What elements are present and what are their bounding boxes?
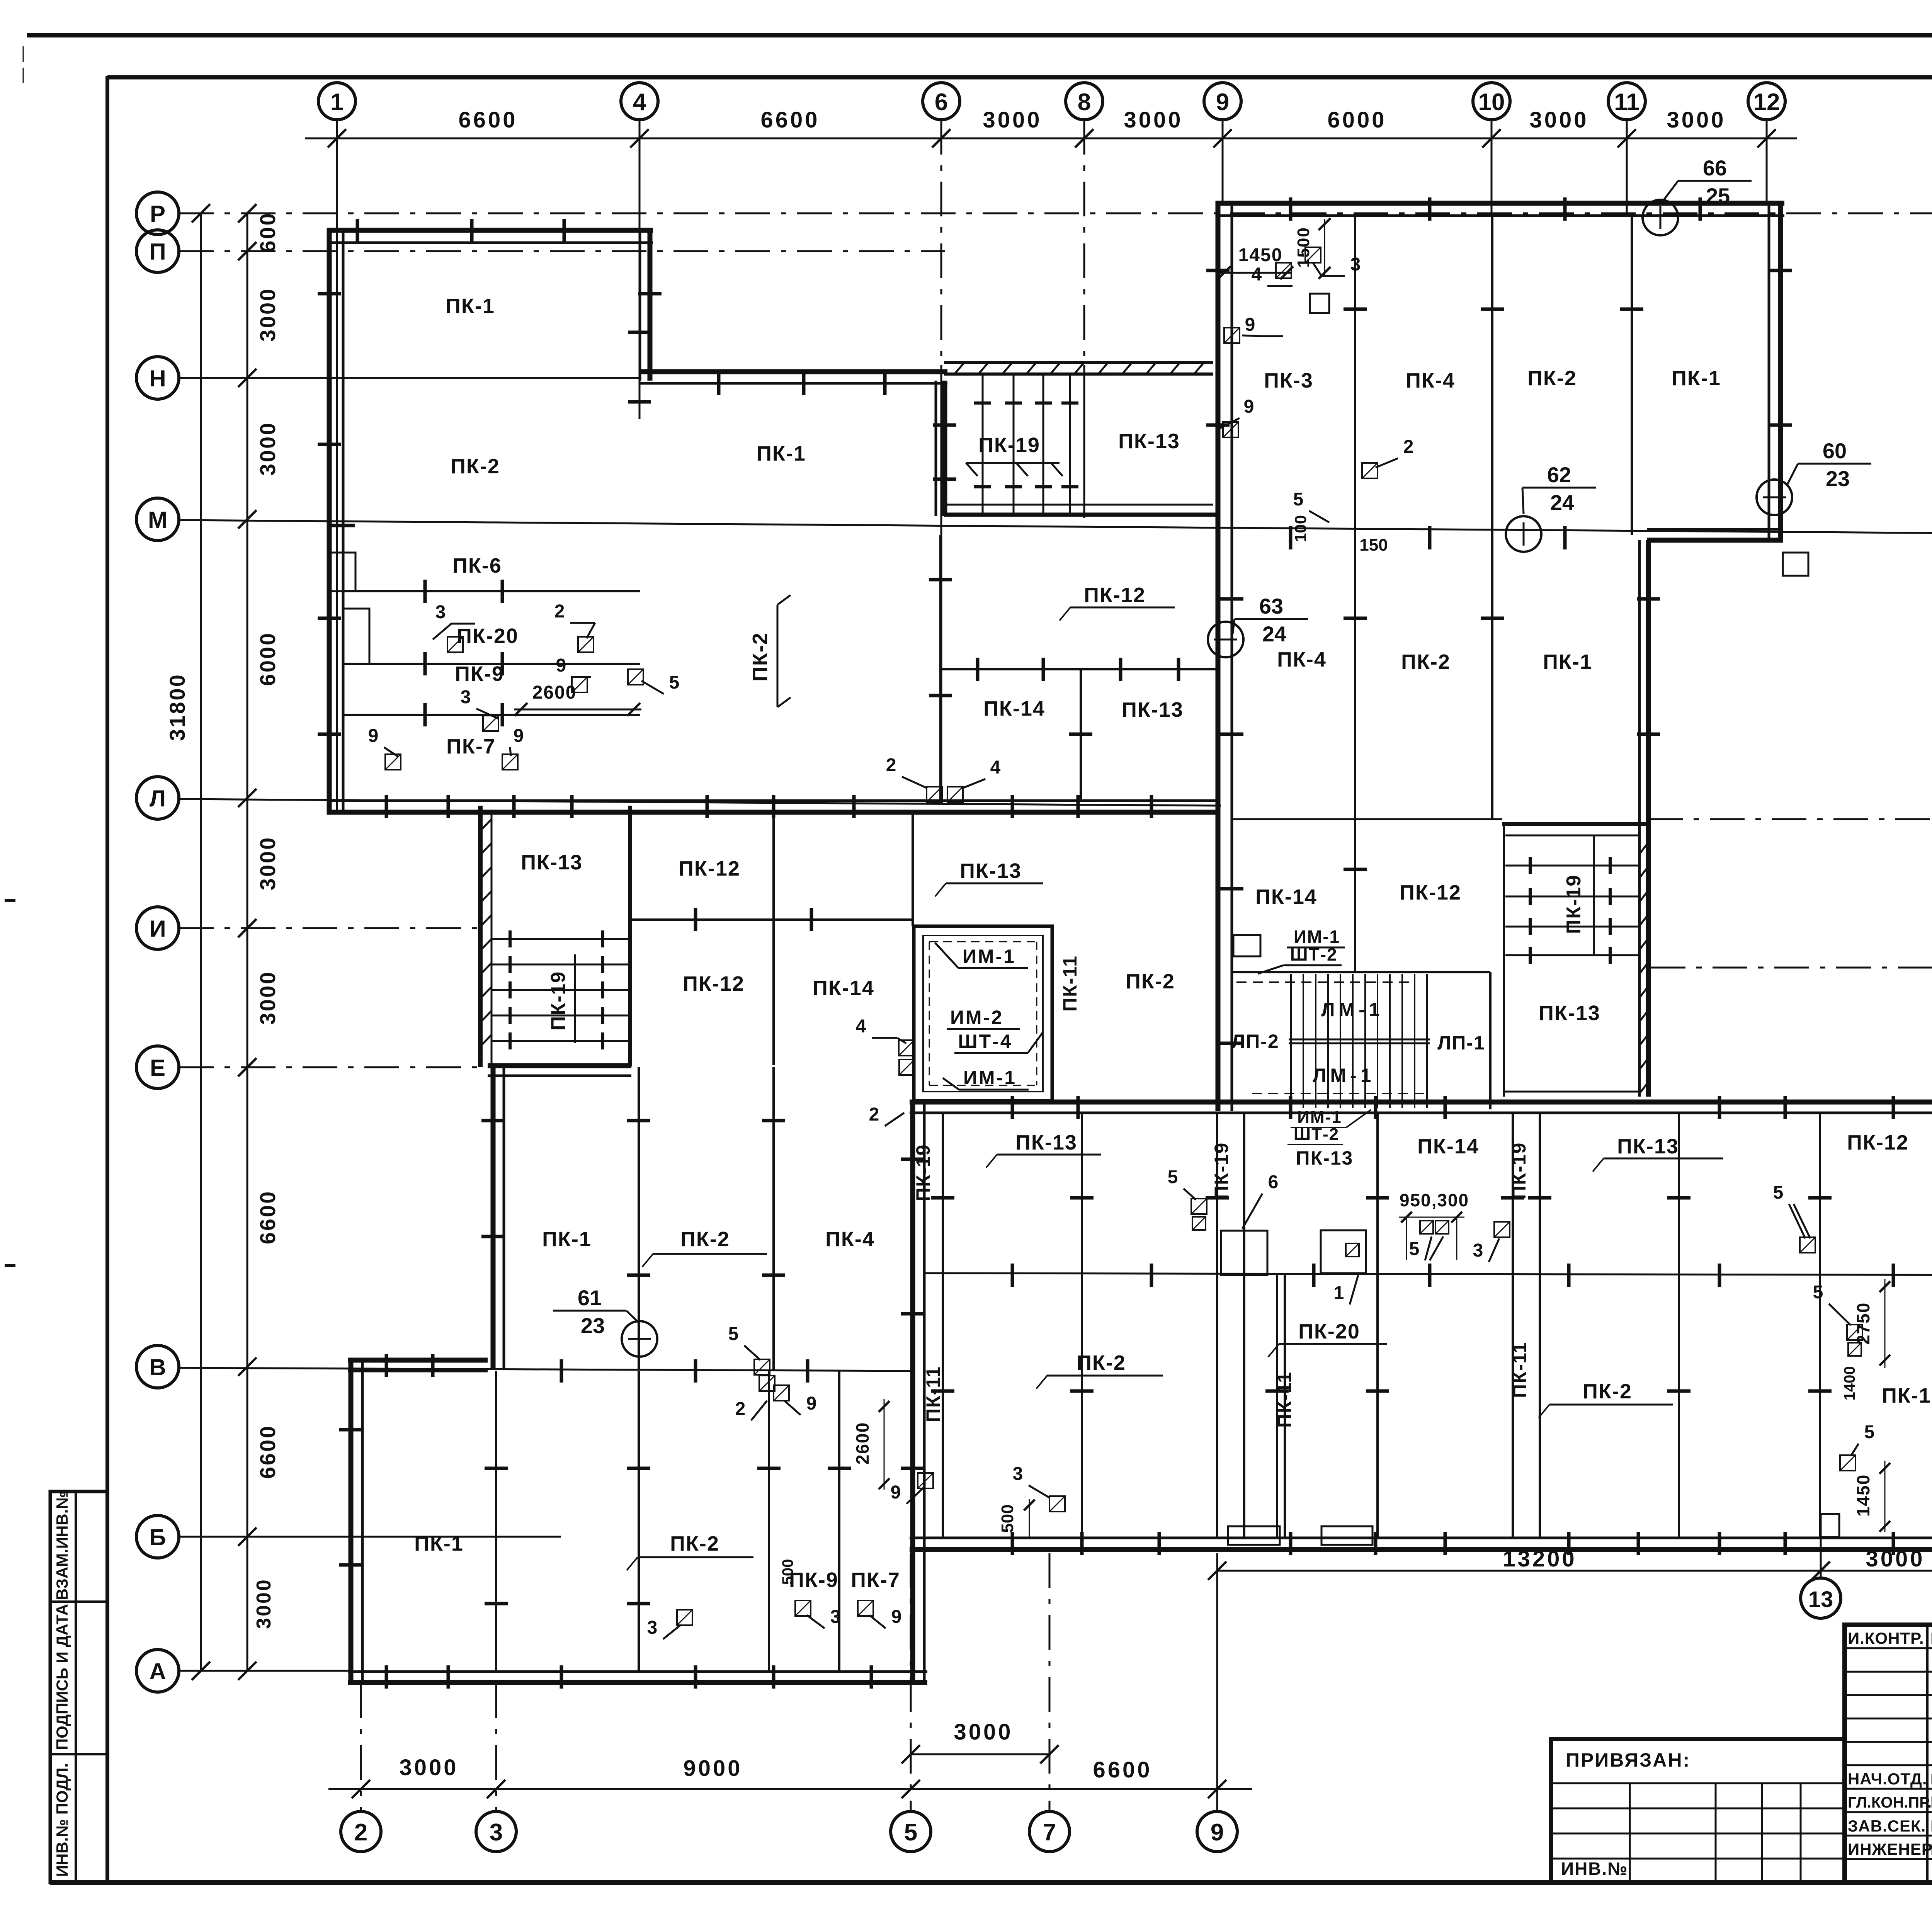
- title block left box grid: [1551, 1782, 1845, 1784]
- svg-text:ИНЖЕНЕР: ИНЖЕНЕР: [1848, 1840, 1932, 1858]
- left stamp strip divider vertical: [75, 1492, 77, 1883]
- axis circle Н left: [136, 357, 179, 399]
- wall top-right block right axis12: [1778, 201, 1783, 541]
- svg-text:3000: 3000: [255, 287, 280, 342]
- svg-text:7: 7: [1043, 1819, 1056, 1846]
- svg-text:3: 3: [1473, 1240, 1483, 1261]
- opening rectangles row Г: [1221, 1231, 1267, 1275]
- svg-text:ПК-2: ПК-2: [1077, 1351, 1126, 1374]
- left overall dimension line: [200, 213, 202, 1671]
- axis circle 9 top: [1204, 83, 1241, 120]
- bottom dimension line 13200/3000: [1217, 1570, 1932, 1572]
- svg-text:А: А: [149, 1658, 166, 1684]
- title block outer box: [1845, 1625, 1932, 1883]
- joint shaft strip vertical x2362 upper: [912, 815, 914, 926]
- wall lower building bottom row Б: [910, 1547, 1932, 1552]
- svg-text:Б: Б: [149, 1524, 166, 1550]
- svg-text:66: 66: [1703, 156, 1727, 180]
- svg-text:4: 4: [856, 1016, 866, 1037]
- svg-text:23: 23: [1826, 466, 1850, 491]
- wall lower building left / bottom-left block right: [910, 1102, 915, 1683]
- svg-text:ПК-20: ПК-20: [1298, 1320, 1360, 1343]
- stair1 treads: [982, 374, 984, 515]
- svg-text:6000: 6000: [1327, 107, 1386, 133]
- axis circle Б left: [136, 1515, 179, 1558]
- shaft ИМ box inner: [923, 935, 1043, 1092]
- svg-text:1450: 1450: [1853, 1474, 1873, 1517]
- svg-text:3000: 3000: [1124, 107, 1183, 133]
- left dimension line segments: [247, 213, 248, 1671]
- stair2 treads: [492, 938, 630, 940]
- svg-text:24: 24: [1550, 490, 1574, 515]
- svg-text:ПК-19: ПК-19: [978, 434, 1040, 457]
- stair3 treads: [1505, 865, 1639, 867]
- wall top-left block right upper: [648, 228, 653, 381]
- svg-text:ПК-12: ПК-12: [1847, 1131, 1909, 1154]
- svg-text:6: 6: [935, 89, 948, 116]
- svg-text:2600: 2600: [532, 682, 577, 703]
- svg-text:1400: 1400: [1841, 1366, 1858, 1401]
- wall bottom-left block left: [349, 1358, 354, 1685]
- svg-text:5: 5: [904, 1819, 917, 1846]
- wall top-left block top: [327, 228, 653, 233]
- axis circle 11 top: [1608, 83, 1645, 120]
- wall stair2 right: [628, 806, 632, 1066]
- svg-text:И.КОНТР.: И.КОНТР.: [1848, 1629, 1924, 1647]
- joint TR block vertical x4223: [1631, 216, 1633, 535]
- opening rectangles lower building bottom: [1228, 1526, 1280, 1545]
- svg-text:5: 5: [1773, 1182, 1784, 1203]
- svg-text:ЛМ-1: ЛМ-1: [1321, 999, 1383, 1020]
- svg-text:ПК-4: ПК-4: [825, 1228, 875, 1251]
- left stamp strip cell dividers: [50, 1600, 107, 1603]
- svg-text:3000: 3000: [1529, 107, 1588, 133]
- axis line 4 vertical: [639, 120, 641, 419]
- svg-text:3000: 3000: [983, 107, 1042, 133]
- svg-text:Р: Р: [150, 201, 165, 227]
- svg-text:Е: Е: [150, 1055, 165, 1081]
- joint Л-Е area horizontal y2380: [631, 918, 913, 921]
- axis circle 1 top: [318, 83, 355, 120]
- joint Л-Е area vertical x2002 upper: [772, 815, 775, 1065]
- svg-text:9: 9: [806, 1393, 817, 1414]
- svg-text:1: 1: [1334, 1283, 1344, 1303]
- svg-text:3: 3: [647, 1617, 658, 1638]
- axis line М horizontal: [179, 520, 1932, 534]
- svg-text:ПК-19: ПК-19: [912, 1144, 934, 1202]
- sheet frame top inner line: [107, 75, 1932, 80]
- svg-text:ПК-4: ПК-4: [1406, 369, 1455, 392]
- axis line Г horizontal: [925, 1273, 1932, 1275]
- svg-text:ПК-2: ПК-2: [680, 1228, 730, 1251]
- svg-text:ГЛ.КОН.ПР.: ГЛ.КОН.ПР.: [1848, 1794, 1932, 1811]
- svg-text:3: 3: [1013, 1464, 1023, 1484]
- axis line 8 vertical: [1083, 120, 1085, 365]
- axis line В horizontal: [179, 1368, 913, 1371]
- svg-text:3000: 3000: [253, 1578, 275, 1629]
- svg-text:9: 9: [1211, 1819, 1224, 1846]
- svg-text:2: 2: [354, 1819, 367, 1846]
- wall mid-block right: [942, 381, 947, 516]
- svg-text:10: 10: [1478, 89, 1505, 116]
- tick marks: [356, 219, 359, 242]
- svg-text:ПК-13: ПК-13: [1296, 1147, 1354, 1169]
- wall row Л: [327, 810, 1220, 815]
- svg-text:2: 2: [735, 1399, 746, 1419]
- svg-text:5: 5: [1813, 1282, 1823, 1303]
- svg-text:ВЗАМ.ИНВ.№: ВЗАМ.ИНВ.№: [53, 1491, 71, 1600]
- svg-text:ИВАНОВСКИЙ: ИВАНОВСКИЙ: [1930, 1629, 1932, 1647]
- svg-text:БОГОРОДСКИЙ: БОГОРОДСКИЙ: [1930, 1770, 1932, 1788]
- svg-text:ИМ-1: ИМ-1: [1297, 1108, 1342, 1127]
- axis line 9 vertical bottom: [1216, 1553, 1218, 1811]
- svg-text:3: 3: [435, 602, 446, 622]
- axis line 2 vertical bottom: [360, 1683, 362, 1811]
- opening rectangle left wall notch: [329, 553, 355, 591]
- wall top-right block top: [1216, 201, 1784, 206]
- joint bottom-left block vertical x1990: [768, 1371, 770, 1672]
- svg-text:3: 3: [1350, 254, 1361, 275]
- title block personnel rows: [1845, 1647, 1932, 1649]
- axis line 3 vertical bottom: [495, 1683, 497, 1811]
- svg-text:31800: 31800: [165, 673, 189, 741]
- svg-text:4: 4: [1252, 264, 1262, 285]
- svg-text:2: 2: [869, 1104, 879, 1125]
- svg-text:ПК-12: ПК-12: [683, 972, 745, 995]
- svg-text:25: 25: [1706, 184, 1730, 208]
- axis circle 8 top: [1066, 83, 1103, 120]
- svg-text:ЛМ-1: ЛМ-1: [1313, 1065, 1375, 1086]
- svg-text:НАЧ.ОТД.: НАЧ.ОТД.: [1848, 1770, 1927, 1788]
- wall top-left block left: [327, 228, 332, 815]
- svg-text:500: 500: [998, 1504, 1017, 1532]
- axis line 1 vertical: [336, 120, 338, 811]
- svg-text:Н: Н: [149, 366, 166, 391]
- shaft ИМ box outer: [914, 926, 1052, 1101]
- svg-text:3000: 3000: [255, 971, 280, 1025]
- axis line 5 vertical bottom: [910, 1553, 912, 1811]
- axis circle 9 bottom: [1197, 1811, 1237, 1852]
- svg-text:9000: 9000: [683, 1756, 742, 1781]
- axis line Б-left horizontal: [179, 1536, 561, 1538]
- axis circle И left: [136, 907, 179, 949]
- svg-text:5: 5: [1293, 489, 1304, 510]
- svg-text:3000: 3000: [954, 1719, 1013, 1745]
- svg-text:ПК-13: ПК-13: [1122, 698, 1184, 721]
- svg-text:ПК-1: ПК-1: [414, 1532, 464, 1555]
- axis line 10 vertical: [1491, 120, 1493, 216]
- svg-text:ПК-13: ПК-13: [1539, 1002, 1600, 1025]
- svg-text:ПК-19: ПК-19: [1563, 874, 1585, 934]
- svg-text:ИМ-2: ИМ-2: [950, 1007, 1003, 1028]
- svg-text:ПК-14: ПК-14: [983, 697, 1045, 720]
- svg-text:5: 5: [728, 1324, 739, 1344]
- axis circle Р left: [136, 192, 179, 235]
- svg-text:2750: 2750: [1853, 1302, 1873, 1345]
- svg-text:3000: 3000: [255, 422, 280, 476]
- svg-text:ГЛУЩЕНКО: ГЛУЩЕНКО: [1930, 1840, 1932, 1858]
- svg-text:ПК-1: ПК-1: [446, 294, 495, 318]
- joint middle band vertical x1653: [638, 1067, 640, 1370]
- svg-text:ЛП-2: ЛП-2: [1231, 1031, 1279, 1052]
- joint mid band horizontal y1732: [940, 668, 1218, 670]
- svg-text:ПК-2: ПК-2: [670, 1532, 719, 1555]
- svg-text:ПК-6: ПК-6: [452, 554, 502, 577]
- svg-text:ИМ-1: ИМ-1: [963, 946, 1016, 967]
- svg-text:П: П: [149, 239, 166, 265]
- svg-text:2: 2: [886, 755, 896, 776]
- svg-text:ПК-11: ПК-11: [1274, 1371, 1295, 1428]
- axis circle 2 bottom: [341, 1811, 381, 1852]
- svg-text:ПК-9: ПК-9: [455, 662, 504, 685]
- svg-text:150: 150: [1359, 536, 1388, 554]
- joint TR lower vertical x3507: [1354, 535, 1356, 819]
- svg-text:23: 23: [581, 1313, 605, 1338]
- svg-text:ПК-2: ПК-2: [451, 455, 500, 478]
- svg-text:3000: 3000: [399, 1755, 458, 1780]
- joint mid band vertical x2434: [939, 535, 942, 801]
- top dimension line: [305, 138, 1797, 139]
- axis circle 3 bottom: [476, 1811, 516, 1852]
- svg-text:ПК-12: ПК-12: [1400, 881, 1461, 904]
- wall bottom-left block bottom: [348, 1680, 927, 1685]
- axis circle 5 bottom: [891, 1811, 931, 1852]
- left stamp strip box: [50, 1492, 107, 1883]
- joint mid band vertical x2797: [1080, 669, 1082, 801]
- svg-text:ПК-1: ПК-1: [1543, 650, 1592, 673]
- svg-text:6600: 6600: [1093, 1757, 1152, 1782]
- joint TR lower vertical x3862: [1491, 535, 1493, 819]
- svg-text:11: 11: [1614, 89, 1639, 116]
- joint middle band vertical x2002: [772, 1067, 775, 1370]
- svg-text:3000: 3000: [255, 836, 280, 891]
- axis line Л horizontal: [179, 799, 1221, 806]
- wall row Н segment: [640, 369, 947, 374]
- bottom dimension line: [328, 1788, 1252, 1790]
- svg-text:2: 2: [554, 601, 565, 622]
- axis circle П left: [136, 230, 179, 272]
- joint bottom-left block vertical x2172: [838, 1371, 840, 1672]
- svg-text:ПК-1: ПК-1: [1672, 367, 1721, 390]
- svg-text:950,300: 950,300: [1400, 1190, 1469, 1210]
- svg-text:3: 3: [830, 1607, 841, 1627]
- axis circle М left: [136, 498, 179, 541]
- wall stair3 left: [1503, 824, 1505, 1097]
- svg-text:ПК-19: ПК-19: [1211, 1142, 1232, 1200]
- svg-text:ПК-11: ПК-11: [1509, 1342, 1531, 1398]
- axis circle 6 top: [923, 83, 960, 120]
- svg-text:ПК-7: ПК-7: [446, 735, 496, 758]
- svg-text:ЛП-1: ЛП-1: [1437, 1032, 1485, 1054]
- joint ПК-6/ПК-20 top-left block: [343, 590, 640, 592]
- axis line 9 vertical top: [1222, 120, 1224, 205]
- axis circle 12 top: [1748, 83, 1785, 120]
- svg-text:ПОДПИСЬ И ДАТА: ПОДПИСЬ И ДАТА: [53, 1604, 71, 1750]
- axis line 7 vertical bottom: [1049, 1553, 1051, 1811]
- axis line 13 vertical bottom: [1820, 1538, 1822, 1578]
- stair main landing lines: [1289, 1039, 1430, 1041]
- svg-text:5: 5: [669, 672, 680, 693]
- wall middle band left: [491, 1065, 496, 1370]
- svg-text:60: 60: [1823, 439, 1847, 463]
- svg-text:ШТ-2: ШТ-2: [1290, 944, 1337, 964]
- svg-text:ПК-13: ПК-13: [1015, 1131, 1077, 1154]
- svg-text:ПК-2: ПК-2: [1401, 650, 1451, 673]
- axis circle 7 bottom: [1029, 1811, 1070, 1852]
- svg-text:61: 61: [578, 1286, 602, 1310]
- joints lower building verticals: [942, 1113, 944, 1538]
- svg-text:62: 62: [1547, 463, 1571, 487]
- svg-text:6600: 6600: [255, 1425, 280, 1479]
- svg-text:ПК-13: ПК-13: [1118, 430, 1180, 453]
- svg-text:ПК-1: ПК-1: [1882, 1384, 1931, 1407]
- svg-text:6: 6: [1268, 1172, 1279, 1192]
- svg-text:6600: 6600: [458, 107, 517, 133]
- axis line П horizontal: [179, 250, 945, 252]
- svg-text:ПК-4: ПК-4: [1277, 648, 1327, 671]
- stair main right border: [1489, 972, 1492, 1109]
- svg-text:5: 5: [1864, 1422, 1875, 1442]
- svg-text:12: 12: [1753, 89, 1780, 116]
- svg-text:ИМ-1: ИМ-1: [1294, 927, 1340, 947]
- svg-text:ПК-2: ПК-2: [1583, 1380, 1632, 1403]
- axis circle Л left: [136, 777, 179, 819]
- svg-text:24: 24: [1262, 622, 1286, 646]
- svg-text:ПК-12: ПК-12: [679, 857, 740, 880]
- axis line Н horizontal: [179, 377, 641, 379]
- svg-text:9: 9: [514, 726, 524, 746]
- wall stair1 bottom: [944, 513, 1218, 517]
- small rectangle top-right wall: [1783, 553, 1808, 576]
- svg-text:ПК-9: ПК-9: [789, 1568, 838, 1592]
- svg-text:И: И: [149, 916, 166, 942]
- axis line 11 vertical: [1626, 120, 1628, 216]
- axis line Р horizontal: [179, 213, 1932, 214]
- joint lower building ПК-11 strip x3305: [1276, 1273, 1278, 1538]
- svg-text:ПК-14: ПК-14: [1255, 885, 1317, 908]
- svg-text:ПК-20: ПК-20: [457, 624, 519, 648]
- svg-text:ПРИВЯЗАН:: ПРИВЯЗАН:: [1566, 1749, 1690, 1771]
- svg-text:ПК-14: ПК-14: [813, 976, 874, 1000]
- stair3 block bottom line: [1504, 1091, 1639, 1093]
- svg-text:ШТ-2: ШТ-2: [1294, 1125, 1339, 1144]
- joint TR block vertical x3507: [1354, 216, 1356, 535]
- svg-text:6600: 6600: [255, 1190, 280, 1245]
- axis line Ж horizontal: [1651, 967, 1932, 969]
- axis line 12 vertical: [1766, 120, 1768, 205]
- sheet frame top outer line: [27, 33, 1932, 37]
- axis circle Е left: [136, 1046, 179, 1088]
- svg-text:600: 600: [255, 212, 280, 252]
- svg-text:6000: 6000: [255, 632, 280, 686]
- wall lower building top row Д: [910, 1100, 1932, 1105]
- wall stair2 left hatched: [478, 806, 483, 1067]
- axis circle А left: [136, 1650, 179, 1692]
- svg-text:6600: 6600: [760, 107, 820, 133]
- wall stair1 top hatched: [944, 361, 1213, 364]
- joint bottom-left block vertical x1653: [638, 1371, 640, 1672]
- stair main top border: [1232, 971, 1490, 973]
- wall row К segment: [1232, 818, 1502, 820]
- svg-text:3: 3: [461, 687, 471, 707]
- svg-text:2: 2: [1403, 437, 1414, 457]
- svg-text:ПК-19: ПК-19: [547, 971, 570, 1031]
- sheet frame left line: [105, 76, 109, 1885]
- svg-text:ЗАВ.СЕК.: ЗАВ.СЕК.: [1848, 1817, 1926, 1835]
- svg-text:2600: 2600: [852, 1422, 872, 1464]
- axis circle 10 top: [1473, 83, 1510, 120]
- svg-text:ПК-1: ПК-1: [757, 442, 806, 465]
- svg-text:63: 63: [1259, 594, 1283, 618]
- svg-text:ПК-1: ПК-1: [542, 1228, 592, 1251]
- wall bottom-left block top step: [348, 1358, 488, 1363]
- svg-text:ПК-13: ПК-13: [1617, 1135, 1679, 1158]
- title block personnel column lines: [1926, 1625, 1929, 1883]
- axis circle 13: [1801, 1578, 1841, 1618]
- svg-text:3000: 3000: [1667, 107, 1726, 133]
- wall top-right block left long: [1216, 201, 1221, 1111]
- svg-text:9: 9: [556, 655, 566, 676]
- svg-text:ПК-11: ПК-11: [922, 1366, 944, 1422]
- joint bottom-left block vertical x1284: [495, 1371, 497, 1672]
- joint TR block vertical x3862: [1491, 216, 1493, 535]
- stair main treads: [1290, 974, 1292, 1108]
- svg-text:ИВАНОВСКИЙ: ИВАНОВСКИЙ: [1930, 1793, 1932, 1811]
- svg-text:8: 8: [1078, 89, 1091, 116]
- svg-text:ИНВ.№ ПОДЛ.: ИНВ.№ ПОДЛ.: [53, 1763, 71, 1877]
- door notch left wall: [343, 609, 369, 664]
- svg-text:9: 9: [1244, 396, 1254, 417]
- svg-text:Л: Л: [150, 786, 166, 811]
- svg-text:9: 9: [1245, 315, 1255, 335]
- svg-text:4: 4: [990, 757, 1001, 778]
- svg-text:В: В: [149, 1354, 166, 1380]
- svg-text:ПК-13: ПК-13: [960, 859, 1022, 883]
- svg-text:ШТ-4: ШТ-4: [958, 1031, 1012, 1052]
- axis line 6 vertical: [940, 120, 942, 365]
- svg-text:ПК-2: ПК-2: [1126, 970, 1175, 993]
- svg-text:9: 9: [368, 726, 379, 746]
- svg-text:ПК-2: ПК-2: [1527, 367, 1577, 390]
- wall row М right segment: [1647, 538, 1783, 543]
- svg-text:1: 1: [330, 89, 344, 116]
- stair3 flight line: [1593, 835, 1595, 955]
- title block left box ПРИВЯЗАН: [1551, 1739, 1845, 1883]
- svg-text:5: 5: [1168, 1167, 1178, 1187]
- svg-text:4: 4: [633, 89, 646, 116]
- svg-text:ПК-7: ПК-7: [851, 1568, 900, 1592]
- svg-text:9: 9: [891, 1482, 901, 1503]
- axis line К horizontal: [1648, 818, 1932, 820]
- svg-text:ПК-11: ПК-11: [1059, 955, 1081, 1012]
- axis line Е horizontal: [179, 1066, 491, 1068]
- joint ПК-9/ПК-7 top-left block: [343, 714, 640, 716]
- axis circle 4 top: [621, 83, 658, 120]
- left margin dash marks: [23, 46, 24, 62]
- svg-text:ПК-13: ПК-13: [521, 851, 583, 874]
- svg-text:ПК-14: ПК-14: [1417, 1135, 1479, 1158]
- svg-text:ПК-2: ПК-2: [748, 632, 772, 682]
- underlines for panel labels: [1070, 607, 1175, 609]
- svg-text:ИНВ.№: ИНВ.№: [1561, 1859, 1628, 1879]
- bottom dimension line 3000 axes 5-7: [911, 1753, 1049, 1755]
- svg-text:БЕЛОВА: БЕЛОВА: [1930, 1817, 1932, 1835]
- joint ПК-20/ПК-9 top-left block: [343, 663, 640, 665]
- wall mid band right axis11 lower: [1646, 540, 1651, 1097]
- svg-text:9: 9: [891, 1607, 902, 1627]
- joint band К-Ж vertical x3507: [1354, 819, 1356, 972]
- svg-text:ПК-19: ПК-19: [1508, 1142, 1530, 1200]
